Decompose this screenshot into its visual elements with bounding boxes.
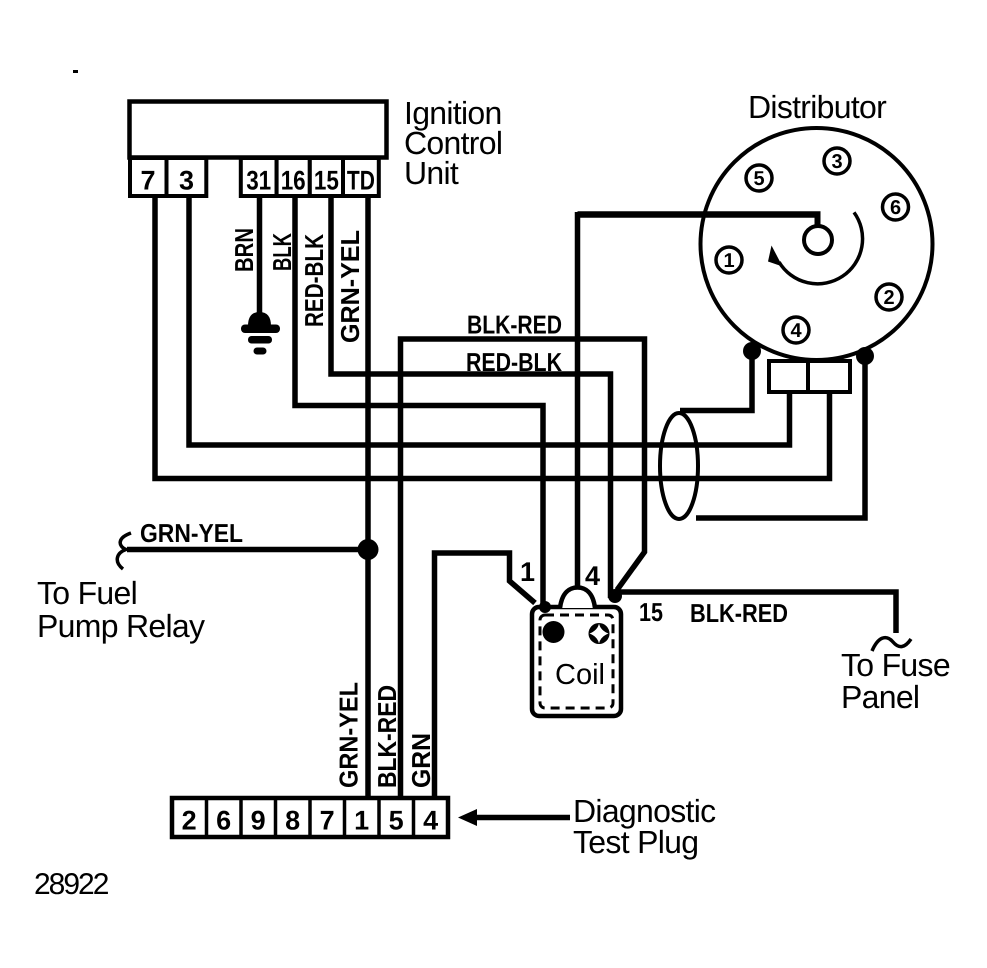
distributor cap terminal 1 [716,247,742,273]
ground symbol [241,312,280,355]
distributor rotor center circle [804,226,832,254]
svg-text:TD: TD [347,166,375,196]
ICU terminal 31 [241,158,277,196]
svg-text:15: 15 [314,166,339,196]
node: distributor lower-left junction dot [743,342,761,360]
distributor cap terminal 6 [883,194,909,220]
wire: ICU 3 to connector left cell [189,196,790,445]
label Diagnostic Test Plug [573,793,716,860]
wire: cable sheath bottom (dot to harness) [696,356,865,518]
svg-text:Unit: Unit [404,155,459,191]
wire: distributor feed from node to rotor [578,212,821,227]
svg-text:GRN: GRN [406,733,436,788]
svg-text:3: 3 [831,151,842,173]
svg-text:1: 1 [723,250,734,272]
ICU terminal 7 [130,158,167,196]
svg-text:4: 4 [585,561,600,591]
svg-text:31: 31 [246,166,271,196]
ignition control unit U1 box [130,102,387,158]
wire: ICU 16 BLK to coil terminal 1 [295,196,543,606]
node: GRN-YEL junction dot [358,539,379,560]
svg-text:RED-BLK: RED-BLK [299,234,329,327]
svg-text:5: 5 [389,806,404,836]
break squiggle at fuel pump wire end [117,533,131,569]
ICU terminal TD [343,158,379,196]
svg-text:Coil: Coil [555,659,605,691]
distributor cap terminal 4 [783,317,809,343]
svg-text:7: 7 [140,166,155,196]
break squiggle at fuse panel wire end [872,638,911,651]
wire: ICU TD GRN-YEL down to test plug 1 [365,196,371,797]
svg-text:To Fuse: To Fuse [841,647,950,683]
svg-text:To Fuel: To Fuel [37,575,137,611]
ICU terminal 16 [277,158,310,196]
svg-text:6: 6 [890,197,901,219]
svg-text:28922: 28922 [34,868,109,901]
svg-text:RED-BLK: RED-BLK [466,347,562,377]
svg-text:BLK-RED: BLK-RED [372,685,402,788]
svg-text:BLK-RED: BLK-RED [467,310,562,340]
svg-text:Pump Relay: Pump Relay [37,608,205,644]
diagnostic test plug connector [172,798,448,837]
node: coil terminal 15 joint [608,589,622,603]
label To Fuse Panel [841,647,950,715]
node: coil left terminal joint [539,601,551,613]
ICU terminal 3 [167,158,207,196]
wire: vertical from feed corner down to coil terminal 4 [575,212,581,589]
ICU terminal 15 [310,158,343,196]
wire: ICU 31 BRN to ground [257,196,263,314]
svg-text:Distributor: Distributor [748,89,887,125]
wire: ICU 7 to connector right cell [155,196,830,479]
svg-text:2: 2 [883,287,894,309]
label Ignition Control Unit [404,95,502,191]
cable harness ellipse [660,413,698,519]
svg-text:BRN: BRN [229,228,259,272]
svg-text:9: 9 [251,806,266,836]
coil body [532,588,621,717]
svg-text:GRN-YEL: GRN-YEL [335,230,365,343]
node: distributor lower-right junction dot [856,347,874,365]
svg-text:6: 6 [216,806,231,836]
wire: GRN from test plug 4 to coil terminal 1 [435,553,536,797]
svg-text:1: 1 [520,557,535,587]
wire: coil 15 BLK-RED to fuse panel [615,592,896,633]
coil terminal 4 (diamond marker) [589,623,610,644]
svg-text:8: 8 [285,806,300,836]
svg-text:GRN-YEL: GRN-YEL [140,518,243,548]
distributor cap terminal 5 [746,165,772,191]
svg-text:Panel: Panel [841,679,919,715]
stray speck top left [73,70,78,73]
distributor cap terminal 2 [876,284,902,310]
svg-text:BLK-RED: BLK-RED [690,598,788,628]
svg-text:2: 2 [182,806,197,836]
wire: ICU 15 RED-BLK to coil terminal 15 [331,196,611,598]
svg-text:4: 4 [790,320,802,342]
svg-text:16: 16 [281,166,306,196]
rotor rotation arrow [768,212,863,283]
wire: GRN-YEL branch to fuel pump relay [127,547,368,553]
coil terminal 1 dot [543,621,565,643]
svg-text:5: 5 [753,168,764,190]
wire: BLK-RED from test plug 5 up and over to coil 15 [401,339,645,797]
svg-text:15: 15 [639,597,663,627]
wire: cable sheath top (dot to harness) [680,351,752,411]
svg-text:Test Plug: Test Plug [573,824,698,860]
label To Fuel Pump Relay [37,575,205,644]
svg-text:GRN-YEL: GRN-YEL [334,682,364,788]
svg-text:3: 3 [179,166,194,196]
arrow to diagnostic test plug [458,809,570,826]
svg-text:4: 4 [423,806,438,836]
svg-text:1: 1 [354,806,369,836]
distributor body circle [701,128,933,360]
svg-text:7: 7 [320,806,335,836]
distributor cap terminal 3 [824,148,850,174]
distributor connector block [769,361,850,392]
